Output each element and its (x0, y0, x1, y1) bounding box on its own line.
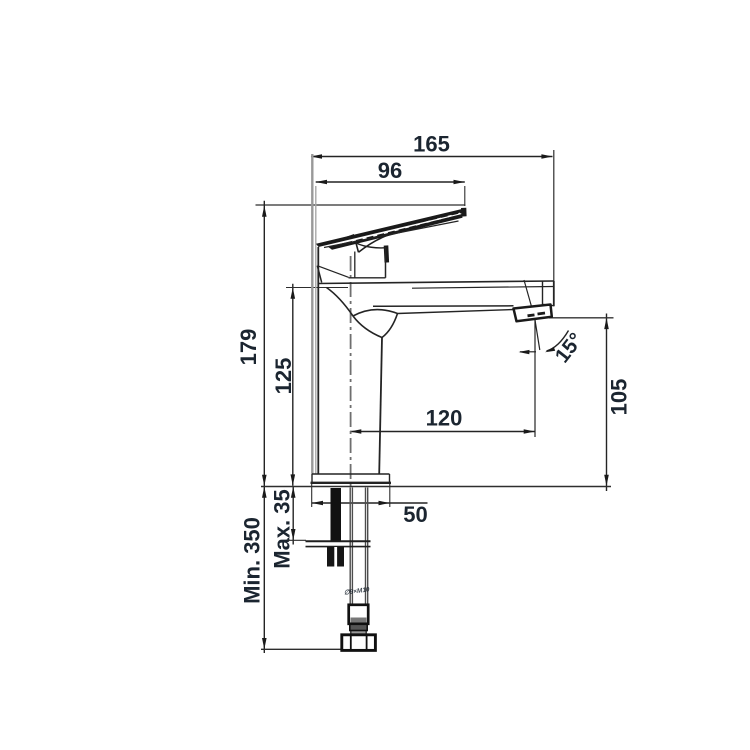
upper housing (317, 247, 385, 283)
svg-text:125: 125 (271, 358, 296, 395)
deck flange (311, 474, 392, 483)
extension line right of 96 (464, 186, 466, 206)
lever blade bottom edge (324, 221, 459, 248)
dimension 120 arrows (350, 429, 535, 434)
hose connector upper box (349, 605, 369, 624)
dimension 50 extension lines (311, 484, 313, 508)
petal left arc (353, 316, 382, 338)
top extension line of 105 (549, 317, 614, 319)
dimension 179 arrows (262, 206, 267, 487)
dimension 179 line (263, 201, 265, 486)
spout end cap (542, 282, 544, 305)
angle 15 deg vertical reference / 120 extension line (534, 318, 536, 438)
svg-text:120: 120 (426, 406, 463, 431)
faucet body left edge (317, 247, 319, 474)
threaded stud (black) (331, 488, 342, 541)
svg-text:105: 105 (607, 379, 632, 416)
dimension 96 line (316, 181, 465, 183)
body right edge (379, 338, 382, 475)
svg-text:179: 179 (236, 329, 261, 366)
dimension 96 arrows (316, 180, 465, 185)
aerator (514, 305, 552, 322)
dimension Max.35 arrows (291, 487, 296, 541)
faucet left body edge extension (gray band) (311, 154, 313, 474)
dimension 125 arrows (291, 288, 296, 486)
dimension 105 line (606, 314, 608, 492)
spout underside lower line (398, 310, 515, 314)
petal right arc (382, 314, 398, 338)
dimension 105 arrows (604, 318, 609, 486)
dimension Min.350 line (263, 487, 265, 654)
angle 15 deg tilted axis line through aerator (524, 280, 535, 318)
lever handle blade (316, 208, 467, 250)
supply hose lines (350, 488, 368, 605)
center axis line (350, 256, 352, 487)
spout inner top line (412, 287, 554, 289)
extension line at washer for Max.35 (288, 539, 307, 541)
handle lug right (384, 246, 389, 263)
hose end nut (342, 635, 376, 651)
spout underside upper line (373, 305, 514, 308)
petal top arc (353, 310, 398, 316)
mounting nut (327, 547, 344, 567)
deck / counter line (261, 486, 611, 488)
handle neck curves (356, 234, 391, 252)
extension line right of 165 (553, 150, 555, 281)
angle 15 deg arc (547, 331, 569, 352)
lever blade white dashes (352, 213, 460, 241)
mounting washer (306, 540, 371, 542)
top extension line of 125 (286, 287, 348, 289)
dimension 125 line (292, 284, 294, 486)
hose connector small section (351, 631, 366, 635)
dimension Max.35 line (292, 487, 294, 545)
dimension Min.350 arrows (262, 487, 267, 650)
dimension 165 line (311, 156, 553, 158)
aerator outlet marks (528, 313, 535, 317)
svg-text:50: 50 (403, 502, 427, 527)
dimension 50 arrows (312, 501, 390, 506)
body-spout left fillet arc (327, 288, 354, 317)
svg-text:165: 165 (413, 132, 450, 157)
top extension line of 179 (256, 204, 466, 206)
spout top line (318, 281, 554, 284)
lever blade top dart (338, 234, 354, 240)
hose connector mid section (350, 624, 367, 630)
dimension 120 line (350, 431, 535, 433)
svg-text:96: 96 (378, 158, 402, 183)
dimension 50 line (312, 502, 428, 504)
bottom extension line of Min.350 (261, 648, 342, 650)
dimension 165 arrows (311, 154, 553, 159)
svg-text:Min. 350: Min. 350 (240, 517, 265, 604)
angle 15 deg horizontal arrow (520, 351, 536, 353)
svg-text:Max. 35: Max. 35 (270, 489, 295, 569)
